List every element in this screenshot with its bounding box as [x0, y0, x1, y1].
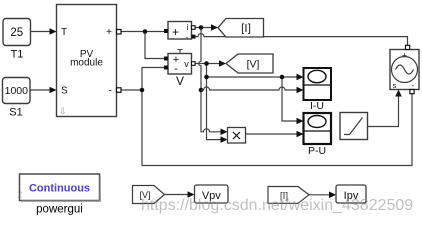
- arrowhead into Goto [V]: [219, 60, 226, 67]
- arrowhead into P-U input2: [297, 131, 304, 138]
- svg-text:1000: 1000: [5, 85, 29, 97]
- svg-text:S: S: [61, 86, 68, 97]
- svg-text:+: +: [402, 51, 407, 61]
- arrowhead into PV.T: [50, 28, 57, 35]
- wire I.i out to Goto [I]: [195, 27, 212, 29]
- arrowhead into Ipv: [329, 192, 336, 199]
- powergui block: [20, 174, 101, 201]
- svg-text:25: 25: [10, 27, 23, 39]
- svg-text:T1: T1: [11, 49, 24, 61]
- junction node V to scopes: [204, 75, 209, 80]
- svg-text:Continuous: Continuous: [29, 183, 90, 195]
- svg-text:https://blog.csdn.net/weixin_4: https://blog.csdn.net/weixin_43822509: [141, 197, 413, 214]
- current sensor I: [168, 22, 192, 43]
- V left + port: [164, 57, 168, 61]
- wire product out to P-U input2: [246, 133, 298, 135]
- wire V signal vertical down to product input2: [207, 64, 222, 140]
- svg-text:+: +: [172, 25, 179, 39]
- arrowhead up into source s: [395, 90, 402, 97]
- product block: [228, 128, 246, 144]
- wire from [V] to Vpv: [165, 194, 189, 196]
- arrowhead into product input2: [221, 136, 228, 143]
- svg-text:[V]: [V]: [247, 59, 260, 71]
- wire from [I] to Ipv: [309, 194, 330, 196]
- svg-text:-: -: [186, 32, 189, 42]
- arrowhead into PV.S: [50, 87, 57, 94]
- constant T1: [3, 19, 31, 46]
- PV output port -: [117, 88, 122, 93]
- svg-text:V: V: [176, 74, 184, 88]
- junction node PV+: [143, 29, 148, 34]
- wire I signal vertical down with hop over V wire: [199, 28, 222, 132]
- wire PV- junction, branch up to V- and down to return: [121, 68, 413, 166]
- svg-text:I-U: I-U: [310, 100, 324, 112]
- goto tag [V]: [226, 54, 273, 73]
- svg-text:+: +: [106, 27, 112, 38]
- scope P-U: [304, 113, 332, 144]
- scope I-U: [304, 68, 332, 100]
- wire ramp to source s input: [368, 95, 399, 127]
- constant S1: [3, 78, 31, 104]
- from tag [V]: [133, 186, 165, 204]
- V signal out port: [192, 62, 196, 66]
- wire I signal to I-U scope input2 with hops: [201, 87, 297, 90]
- arrowhead into Vpv: [188, 191, 195, 198]
- goto tag [I]: [218, 19, 264, 38]
- controlled voltage source: [390, 50, 419, 91]
- junction node I to scope: [199, 88, 204, 93]
- svg-text:v: v: [184, 59, 189, 69]
- wire S1 to PV.S: [30, 89, 51, 91]
- svg-text:S1: S1: [9, 107, 22, 119]
- arrowhead into P-U input1: [297, 118, 304, 125]
- source top electrical port: [406, 45, 410, 49]
- arrowhead into I-U input2: [297, 87, 304, 94]
- svg-text:module: module: [70, 58, 103, 69]
- svg-text:P-U: P-U: [308, 145, 326, 157]
- svg-text:⇩: ⇩: [59, 106, 67, 116]
- svg-text:s: s: [393, 81, 397, 90]
- junction node PV-: [140, 88, 145, 93]
- I left electrical port: [164, 29, 168, 33]
- svg-text:powergui: powergui: [36, 204, 83, 216]
- arrowhead into product input1: [221, 129, 228, 136]
- I right electrical port: [192, 35, 196, 39]
- arrowhead into I-U input1: [297, 74, 304, 81]
- svg-text:2: 2: [17, 190, 22, 201]
- V top tick mark: [178, 50, 183, 54]
- junction node scope branch: [280, 75, 285, 80]
- wire PV+ to I+ with branch down to V+: [121, 32, 165, 59]
- svg-text:-: -: [109, 86, 112, 97]
- svg-text:[I]: [I]: [241, 22, 251, 34]
- svg-text:i: i: [187, 22, 189, 32]
- junction node V.v: [204, 61, 209, 66]
- V left - port: [164, 66, 168, 70]
- svg-text:T: T: [61, 27, 67, 38]
- source bottom electrical port: [410, 90, 414, 94]
- wire V signal to I-U input1 and down to P-U input1: [207, 77, 298, 121]
- PV module block: [57, 5, 117, 117]
- from tag [I]: [268, 187, 309, 204]
- ramp source: [340, 113, 368, 140]
- voltage sensor V: [168, 54, 192, 76]
- arrowhead into Goto [I]: [211, 24, 218, 31]
- wire I.- to source + (long top wire) with hop: [196, 34, 408, 46]
- wire V.v out to Goto [V]: [195, 63, 220, 65]
- junction node I.i: [199, 25, 204, 30]
- wire T1 to PV.T: [31, 31, 52, 33]
- PV output port +: [117, 30, 122, 35]
- to workspace Ipv: [336, 185, 366, 203]
- I signal out port: [192, 26, 196, 30]
- to workspace Vpv: [195, 185, 229, 203]
